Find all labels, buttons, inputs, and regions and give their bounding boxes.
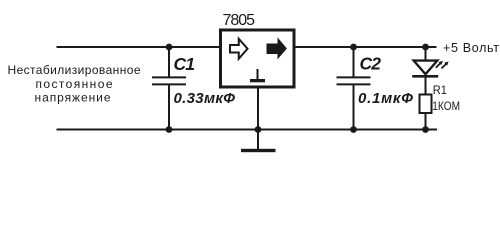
capacitor C2: [337, 47, 371, 130]
wire regulator ground pin: [257, 89, 259, 130]
pin input hollow arrow: [230, 39, 248, 59]
node D (top rail / C2 junction): [350, 44, 357, 51]
capacitor C1: [152, 47, 186, 130]
svg-text:7805: 7805: [223, 12, 256, 29]
wire LED to resistor: [425, 76, 427, 94]
svg-text:0.1мкФ: 0.1мкФ: [358, 90, 413, 107]
svg-text:постоянное: постоянное: [36, 77, 113, 91]
pin ground symbol inside box: [250, 69, 265, 82]
node A (top rail / C1 junction): [166, 44, 173, 51]
label input text: [8, 63, 141, 105]
wire resistor to bottom rail: [425, 113, 427, 130]
svg-text:0.33мкФ: 0.33мкФ: [174, 90, 236, 107]
node F (top rail / LED branch junction): [422, 44, 429, 51]
svg-text:Нестабилизированное: Нестабилизированное: [8, 63, 141, 77]
wire top rail right segment: [296, 46, 437, 48]
node C (bottom rail / ground pin junction): [255, 126, 262, 133]
op-amp U1 7805 regulator box: [221, 30, 295, 87]
node G (bottom rail / resistor junction): [422, 126, 429, 133]
svg-text:C2: C2: [360, 53, 382, 73]
node B (bottom rail / C1 junction): [166, 126, 173, 133]
ground: [241, 149, 276, 152]
pin output filled arrow: [267, 39, 286, 58]
LED VD1: [412, 61, 448, 77]
node E (bottom rail / C2 junction): [350, 126, 357, 133]
wire LED branch top: [425, 47, 427, 61]
wire to ground: [257, 130, 259, 150]
svg-text:1КОМ: 1КОМ: [432, 100, 460, 113]
svg-text:R1: R1: [433, 85, 447, 97]
wire bottom rail: [57, 129, 438, 131]
svg-text:C1: C1: [174, 54, 196, 74]
wire top rail left segment: [57, 46, 220, 48]
svg-text:напряжение: напряжение: [35, 91, 111, 105]
svg-text:+5 Вольт: +5 Вольт: [443, 41, 499, 55]
resistor R1: [420, 95, 432, 114]
